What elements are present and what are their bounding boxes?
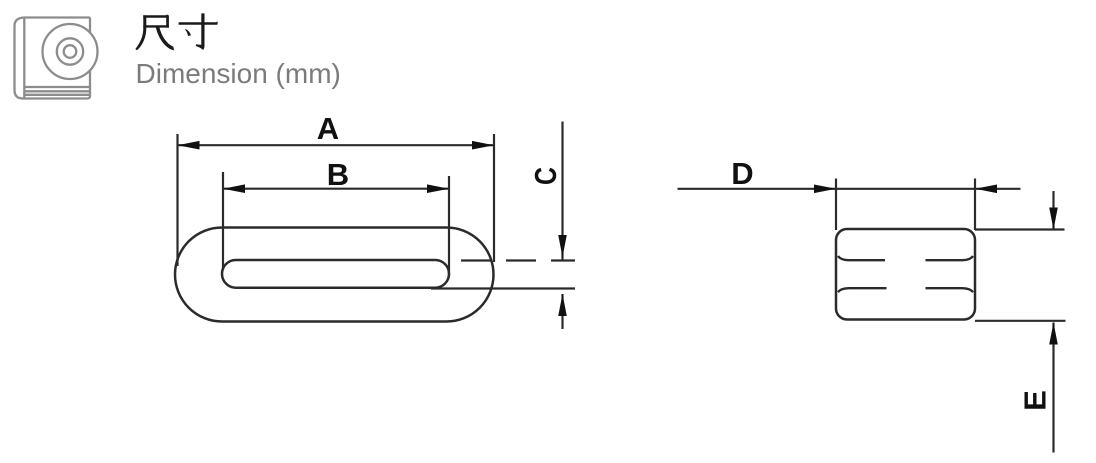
dimension E arrowhead up	[1049, 323, 1058, 345]
svg-text:A: A	[317, 111, 339, 146]
side view: slot top edge right segment	[926, 256, 974, 260]
dimension A arrowhead right	[472, 141, 494, 150]
icon: book with disc	[15, 18, 98, 99]
dimension A extension line right	[493, 134, 495, 262]
slot bottom reference line	[431, 287, 575, 289]
dimension B line	[223, 188, 449, 190]
dimension D line right tail	[975, 188, 1021, 190]
dimension D extension line right	[974, 179, 976, 231]
dimension B extension line right	[448, 176, 450, 276]
side view bottom extension line	[975, 320, 1066, 322]
dimension D arrowhead right	[975, 185, 997, 194]
dimension A line	[178, 144, 495, 146]
dimension C line lower	[561, 294, 563, 329]
dimension E line upper	[1052, 191, 1054, 230]
dimension D line middle	[836, 188, 975, 190]
svg-text:B: B	[327, 157, 349, 192]
dimension B arrowhead left	[223, 184, 245, 193]
dimension A arrowhead left	[178, 141, 200, 150]
dimension C arrowhead up	[558, 294, 567, 316]
svg-text:C: C	[528, 167, 563, 185]
svg-text:D: D	[731, 156, 753, 191]
front view: inner slot outline	[222, 260, 449, 288]
side view: slot bottom edge left segment	[838, 288, 887, 292]
title 尺 (drawn glyph)	[135, 15, 174, 51]
svg-text:E: E	[1018, 390, 1053, 411]
side view: body outline	[836, 229, 975, 320]
svg-text:Dimension (mm): Dimension (mm)	[136, 58, 341, 89]
front view: outer stadium outline	[175, 228, 494, 322]
dimension A extension line left	[176, 134, 178, 266]
dimension B extension line left	[222, 172, 224, 270]
slot top dashed reference line	[461, 259, 575, 261]
dimension D arrowhead left	[814, 185, 836, 194]
title 寸 (drawn glyph)	[179, 13, 218, 50]
side view: slot top edge left segment	[838, 256, 885, 260]
dimension C line upper	[561, 122, 563, 261]
dimension C arrowhead down	[558, 235, 567, 257]
dimension E line lower	[1052, 323, 1054, 453]
dimension B arrowhead right	[427, 184, 449, 193]
dimension E arrowhead down	[1049, 208, 1058, 230]
dimension D extension line left	[835, 179, 837, 231]
dimension D line left tail	[678, 188, 837, 190]
side view: slot bottom edge right segment	[926, 288, 974, 292]
side view top extension line	[975, 228, 1065, 230]
